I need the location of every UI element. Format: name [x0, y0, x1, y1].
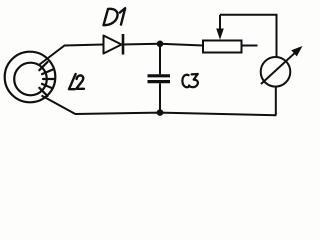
potentiometer R1 [203, 15, 258, 53]
capacitor C3 [148, 44, 171, 113]
inductor L2 [5, 52, 56, 103]
diode D1 [104, 34, 124, 55]
meter M1 [261, 46, 303, 87]
label D1 [104, 8, 126, 25]
wire wiper to meter [220, 15, 277, 57]
node junction top [157, 41, 164, 48]
label L2 [69, 74, 84, 89]
wire meter to bottom rail [275, 87, 277, 116]
wire coil bottom lead [42, 96, 277, 116]
wire coil top lead [40, 45, 104, 65]
wire diode to junction [123, 43, 160, 46]
label C3 [182, 74, 198, 87]
wire junction to potentiometer [160, 44, 203, 46]
node junction bottom [157, 109, 164, 116]
